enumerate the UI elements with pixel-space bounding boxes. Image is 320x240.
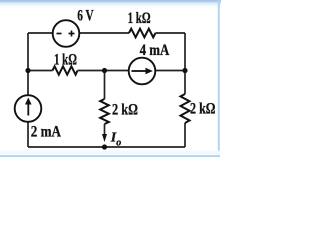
node dot middle row xyxy=(102,68,107,73)
svg-text:o: o xyxy=(116,138,121,149)
svg-text:2 kΩ: 2 kΩ xyxy=(112,101,138,118)
wire left column upper xyxy=(27,33,29,95)
wire left column lower xyxy=(27,122,29,147)
frame bottom border xyxy=(0,151,220,156)
wire middle branch lower with Io arrow xyxy=(104,124,106,137)
frame top gradient band xyxy=(0,0,221,11)
resistor R_right 2 kOhm xyxy=(181,94,190,123)
arrow 2mA xyxy=(27,104,29,116)
resistor R_midv 2 kOhm xyxy=(100,99,109,124)
wire middle branch upper xyxy=(104,71,106,100)
svg-text:4 mA: 4 mA xyxy=(140,42,170,59)
wire top row left xyxy=(28,32,53,34)
wire top row right xyxy=(156,32,186,34)
minus sign xyxy=(57,33,62,35)
svg-text:6 V: 6 V xyxy=(77,7,94,24)
wire bottom row xyxy=(28,146,185,148)
voltage source V1 6V circle xyxy=(53,20,80,47)
wire middle row left xyxy=(28,70,53,72)
node dot right middle xyxy=(182,68,187,73)
svg-text:1 kΩ: 1 kΩ xyxy=(54,51,77,68)
arrowhead Io xyxy=(102,134,107,142)
frame right border xyxy=(218,0,220,157)
current source I1 4mA circle xyxy=(129,58,156,85)
node dot left middle xyxy=(25,68,30,73)
node dot bottom middle xyxy=(102,144,107,149)
wire right column lower xyxy=(184,123,186,147)
plus sign xyxy=(69,33,75,35)
svg-text:2 kΩ: 2 kΩ xyxy=(190,100,216,117)
wire right column upper xyxy=(184,33,186,94)
arrow 4mA xyxy=(132,70,147,72)
resistor R_top 1 kOhm xyxy=(129,29,156,38)
wire middle row center xyxy=(78,70,129,72)
svg-text:2 mA: 2 mA xyxy=(31,124,62,141)
resistor R_mid 1 kOhm xyxy=(53,66,78,74)
wire middle row right xyxy=(156,70,186,72)
wire top row middle xyxy=(80,32,130,34)
current source I2 2mA circle xyxy=(15,95,42,122)
svg-text:1 kΩ: 1 kΩ xyxy=(128,10,151,27)
